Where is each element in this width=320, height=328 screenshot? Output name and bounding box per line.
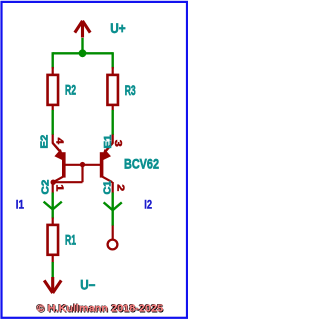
node junction dot	[79, 49, 87, 57]
wire top rail	[53, 52, 113, 54]
wire right rail upper	[111, 52, 113, 68]
svg-text:U−: U−	[80, 277, 95, 292]
svg-text:E2: E2	[39, 134, 50, 148]
resistor R1	[48, 218, 59, 263]
svg-text:R2: R2	[65, 82, 76, 98]
svg-text:U+: U+	[110, 21, 125, 36]
base interconnect wire	[53, 165, 102, 182]
wire C1 to terminal with current arrow I2	[104, 193, 122, 226]
wire R1 to U-	[52, 262, 54, 278]
junction dot base	[80, 162, 85, 167]
transistor Q1 (right half of BCV62)	[101, 135, 113, 193]
wire C2 to R1 with current arrow I1	[44, 193, 62, 219]
open terminal circle	[108, 240, 118, 250]
svg-text:1: 1	[54, 184, 65, 192]
power symbol U+	[75, 21, 90, 38]
wire left rail upper	[52, 52, 54, 68]
svg-text:E1: E1	[103, 134, 114, 148]
svg-text:C2: C2	[41, 179, 52, 194]
wire R2 to Q2 emitter	[52, 110, 54, 135]
svg-text:I2: I2	[144, 198, 152, 212]
svg-text:2: 2	[114, 184, 125, 192]
resistor R3	[107, 67, 118, 111]
svg-text:I1: I1	[16, 197, 25, 211]
svg-text:© H.Kullmann 2018-2025: © H.Kullmann 2018-2025	[37, 303, 164, 315]
border frame	[2, 2, 188, 318]
junction dot collector C2	[51, 180, 56, 185]
terminal pin I2	[112, 226, 114, 240]
svg-text:C1: C1	[103, 180, 114, 194]
svg-text:4: 4	[53, 138, 64, 145]
transistor Q2 (left half of BCV62)	[53, 135, 64, 194]
wire U+ stem	[81, 38, 83, 53]
svg-text:BCV62: BCV62	[124, 155, 159, 171]
power symbol U-	[44, 277, 61, 293]
svg-text:R3: R3	[125, 82, 136, 98]
svg-text:R1: R1	[65, 231, 76, 247]
wire R3 to Q1 emitter	[111, 110, 113, 135]
resistor R2	[48, 67, 59, 111]
